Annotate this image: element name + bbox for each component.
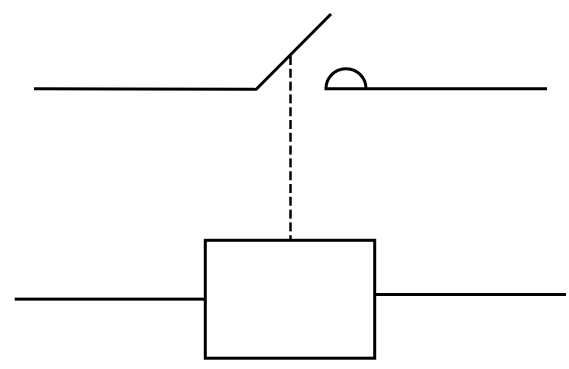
wire top-left (to switch pole)	[34, 87, 257, 90]
wire hop semicircle (crossover)	[326, 69, 366, 89]
dashed actuation link (switch to box)	[289, 56, 292, 240]
wire bottom-left (to box)	[15, 298, 206, 301]
wire top-right (from throw contact)	[325, 87, 548, 90]
switch blade (open contact)	[256, 14, 331, 90]
wire bottom-right (from box)	[375, 293, 567, 296]
box (relay coil / actuator)	[205, 240, 374, 358]
